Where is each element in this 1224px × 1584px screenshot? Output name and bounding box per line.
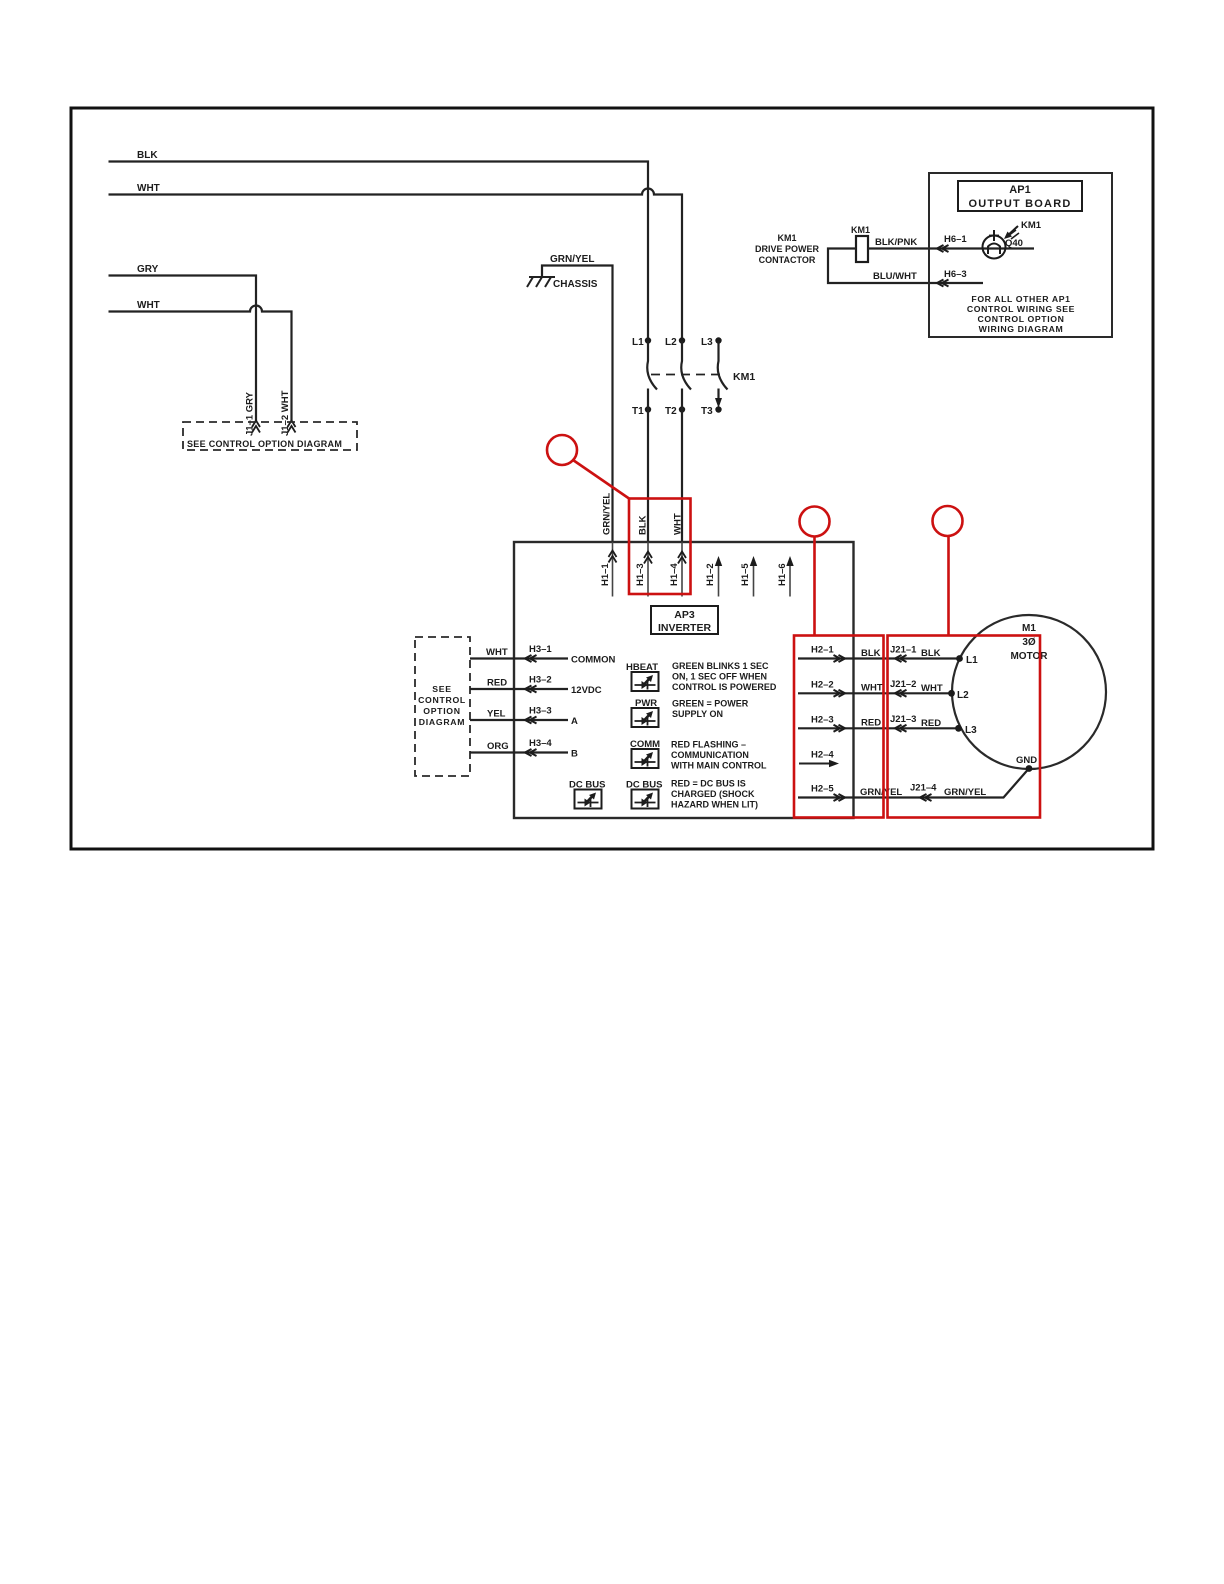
pin H1-1	[600, 542, 617, 597]
note HBEAT description	[672, 661, 777, 692]
svg-text:CHARGED (SHOCK: CHARGED (SHOCK	[671, 789, 755, 799]
svg-text:WHT: WHT	[921, 683, 943, 694]
svg-text:12VDC: 12VDC	[571, 685, 602, 696]
svg-text:H1–2: H1–2	[705, 563, 716, 586]
LED PWR	[632, 698, 659, 727]
svg-text:J21–3: J21–3	[890, 714, 916, 725]
svg-text:T3: T3	[701, 406, 713, 417]
wire GRY (turns down to J1-1)	[109, 264, 257, 421]
red callout line 1	[573, 460, 629, 499]
svg-text:L3: L3	[965, 725, 977, 736]
wire WHT T2 to inverter H1-4	[681, 410, 683, 543]
node L1 (motor)	[956, 655, 963, 662]
note COMM description	[671, 740, 767, 771]
wire H2-3 / J21-3 RED to motor L3	[798, 714, 956, 732]
svg-text:BLK: BLK	[137, 150, 158, 161]
red highlight box 1 (H1-3 / H1-4 pins)	[629, 499, 691, 595]
red callout circle 3	[933, 506, 963, 536]
svg-text:A: A	[571, 716, 578, 727]
node L3	[715, 337, 721, 343]
svg-text:J21–1: J21–1	[890, 645, 917, 656]
wire ORG to H3-4	[470, 738, 578, 760]
wire BLK T1 to inverter H1-3	[647, 410, 649, 543]
red callout line 2	[813, 537, 816, 636]
LED DC BUS (left)	[569, 780, 605, 809]
box AP3 inverter	[514, 542, 854, 818]
contact blade pole 3	[718, 341, 728, 390]
svg-text:KM1: KM1	[733, 371, 755, 383]
svg-text:WHT: WHT	[137, 300, 160, 311]
svg-text:WHT: WHT	[486, 647, 508, 658]
svg-text:H2–5: H2–5	[811, 784, 834, 795]
svg-text:CONTROL WIRING SEE: CONTROL WIRING SEE	[967, 304, 1075, 314]
contact blade pole 2	[681, 341, 691, 390]
motor M1	[952, 615, 1106, 769]
title box AP1 OUTPUT BOARD	[958, 181, 1082, 211]
connector J1-1 (mated pair)	[252, 421, 260, 433]
red callout circle 2	[800, 507, 830, 537]
svg-text:RED: RED	[861, 718, 881, 729]
svg-text:H6–1: H6–1	[944, 234, 967, 245]
svg-text:RED = DC BUS IS: RED = DC BUS IS	[671, 779, 746, 789]
wire H2-5 / J21-4 GRN/YEL to motor GND	[798, 770, 1028, 802]
wire BLK (top feed, turns down to L1)	[109, 150, 649, 338]
svg-text:ON, 1 SEC OFF WHEN: ON, 1 SEC OFF WHEN	[672, 672, 767, 682]
dashed box SEE CONTROL OPTION DIAGRAM (left of inverter)	[415, 637, 470, 776]
svg-text:GRY: GRY	[137, 264, 159, 275]
linkage dashed line	[651, 374, 724, 376]
svg-text:DRIVE POWER: DRIVE POWER	[755, 244, 820, 254]
red highlight box 2 (H2 connector column)	[794, 636, 884, 818]
svg-text:AP3: AP3	[674, 609, 695, 621]
svg-text:M1: M1	[1022, 623, 1036, 634]
node T3 (stub with down arrow)	[715, 406, 721, 412]
box AP1 output board	[929, 173, 1112, 337]
svg-text:WITH MAIN CONTROL: WITH MAIN CONTROL	[671, 761, 767, 771]
red highlight box 3 (J21 / motor leads)	[888, 636, 1041, 818]
LED HBEAT	[626, 662, 659, 691]
pin H1-5 (up arrow)	[740, 556, 757, 597]
svg-text:H3–3: H3–3	[529, 706, 552, 717]
svg-text:J21–2: J21–2	[890, 679, 916, 690]
label KM1 DRIVE POWER CONTACTOR	[755, 233, 820, 265]
svg-text:CONTROL OPTION: CONTROL OPTION	[978, 314, 1065, 324]
contact blade pole 1	[647, 341, 657, 390]
connector H6-1	[937, 245, 949, 252]
svg-text:T1: T1	[632, 406, 644, 417]
wire WHT to H3-1	[470, 644, 615, 666]
svg-text:H2–3: H2–3	[811, 715, 834, 726]
pin H1-3	[635, 542, 652, 597]
node L2	[679, 337, 685, 343]
border frame	[71, 108, 1153, 849]
svg-text:SEE: SEE	[432, 684, 451, 694]
connector J1-2 (mated pair)	[288, 421, 296, 433]
svg-text:CONTROL IS POWERED: CONTROL IS POWERED	[672, 682, 777, 692]
svg-text:ORG: ORG	[487, 741, 509, 752]
svg-text:BLK: BLK	[921, 648, 941, 659]
svg-text:B: B	[571, 749, 578, 760]
svg-text:AP1: AP1	[1009, 184, 1030, 196]
svg-text:Q40: Q40	[1005, 238, 1023, 249]
wire H2-2 / J21-2 WHT to motor L2	[798, 679, 949, 697]
svg-text:INVERTER: INVERTER	[658, 622, 712, 634]
pin H2-4 (right arrow stub)	[799, 750, 839, 768]
wire BLK/PNK coil to Q40	[868, 247, 1034, 249]
svg-text:H2–1: H2–1	[811, 645, 834, 656]
svg-text:MOTOR: MOTOR	[1010, 651, 1048, 662]
svg-text:H1–1: H1–1	[600, 563, 611, 586]
svg-text:H3–4: H3–4	[529, 738, 552, 749]
svg-text:H3–2: H3–2	[529, 675, 552, 686]
svg-text:L2: L2	[665, 337, 677, 348]
svg-text:J21–4: J21–4	[910, 783, 937, 794]
svg-text:RED: RED	[487, 678, 507, 689]
LED COMM	[630, 739, 660, 768]
svg-text:KM1: KM1	[1021, 220, 1042, 231]
svg-text:COMMON: COMMON	[571, 655, 615, 666]
wire WHT (lower, hops over GRY vertical, turns down to J1-2)	[109, 300, 292, 421]
svg-text:BLU/WHT: BLU/WHT	[873, 271, 917, 282]
pin H1-6 (up arrow)	[777, 556, 794, 597]
svg-text:WHT: WHT	[861, 683, 883, 694]
wire coil loop to BLU/WHT return	[828, 249, 983, 284]
svg-text:YEL: YEL	[487, 709, 506, 720]
wire H2-1 / J21-1 BLK to motor L1	[798, 645, 957, 663]
svg-text:WHT: WHT	[673, 513, 684, 535]
dashed box SEE CONTROL OPTION DIAGRAM (bottom of J1 wires)	[183, 422, 357, 450]
svg-text:HAZARD WHEN LIT): HAZARD WHEN LIT)	[671, 800, 758, 810]
red callout line 3	[947, 536, 950, 636]
svg-text:GRN/YEL: GRN/YEL	[860, 787, 902, 798]
wire YEL to H3-3	[470, 706, 578, 728]
note PWR description	[672, 699, 749, 720]
contactor KM1 main contacts	[632, 337, 755, 417]
svg-text:DIAGRAM: DIAGRAM	[419, 717, 465, 727]
svg-text:H2–2: H2–2	[811, 680, 834, 691]
red callout circle 1	[547, 435, 577, 465]
svg-text:H2–4: H2–4	[811, 750, 834, 761]
svg-text:H1–6: H1–6	[777, 563, 788, 586]
svg-text:BLK: BLK	[638, 515, 649, 535]
svg-text:CONTROL: CONTROL	[418, 695, 466, 705]
svg-text:L1: L1	[632, 337, 644, 348]
svg-text:BLK/PNK: BLK/PNK	[875, 237, 917, 248]
title box AP3 INVERTER	[651, 606, 718, 634]
gate pointer KM1 to Q40	[1004, 220, 1042, 239]
svg-text:WHT: WHT	[137, 183, 160, 194]
svg-text:H3–1: H3–1	[529, 644, 552, 655]
svg-text:RED FLASHING –: RED FLASHING –	[671, 740, 746, 750]
svg-text:BLK: BLK	[861, 648, 881, 659]
note DC BUS description	[671, 779, 758, 810]
node L2 (motor)	[948, 690, 955, 697]
svg-text:3Ø: 3Ø	[1022, 637, 1036, 648]
node GND (motor)	[1026, 765, 1033, 772]
LED DC BUS (right)	[626, 780, 662, 809]
node T2	[679, 406, 685, 412]
svg-text:L3: L3	[701, 337, 713, 348]
pin H1-4	[669, 542, 686, 597]
svg-text:GRN/YEL: GRN/YEL	[602, 493, 613, 535]
svg-text:GRN/YEL: GRN/YEL	[944, 787, 986, 798]
svg-text:H1–4: H1–4	[669, 563, 680, 586]
connector H6-3	[937, 280, 949, 287]
coil KM1	[851, 225, 870, 262]
pin H1-2 (up arrow)	[705, 556, 722, 597]
svg-text:L1: L1	[966, 655, 978, 666]
svg-text:FOR ALL OTHER AP1: FOR ALL OTHER AP1	[971, 294, 1070, 304]
note FOR ALL OTHER AP1 ...	[967, 294, 1075, 334]
svg-text:KM1: KM1	[851, 225, 870, 235]
svg-text:GND: GND	[1016, 755, 1037, 766]
svg-text:WIRING DIAGRAM: WIRING DIAGRAM	[979, 324, 1064, 334]
svg-text:OPTION: OPTION	[423, 706, 461, 716]
node L3 (motor)	[955, 725, 962, 732]
svg-text:COMMUNICATION: COMMUNICATION	[671, 750, 749, 760]
svg-text:GRN/YEL: GRN/YEL	[550, 254, 594, 265]
svg-text:GREEN BLINKS 1 SEC: GREEN BLINKS 1 SEC	[672, 661, 769, 671]
svg-text:GREEN = POWER: GREEN = POWER	[672, 699, 749, 709]
wire WHT (second feed, hops over BLK vertical, turns down to L2)	[109, 183, 683, 338]
svg-text:H1–3: H1–3	[635, 563, 646, 586]
svg-text:T2: T2	[665, 406, 677, 417]
wire RED to H3-2	[470, 675, 602, 697]
transistor Q40	[983, 230, 1023, 259]
svg-text:SUPPLY ON: SUPPLY ON	[672, 709, 723, 719]
chassis ground GRN/YEL	[527, 254, 613, 542]
node L1	[645, 337, 651, 343]
svg-text:SEE CONTROL OPTION DIAGRAM: SEE CONTROL OPTION DIAGRAM	[187, 439, 342, 449]
node T1	[645, 406, 651, 412]
svg-text:RED: RED	[921, 718, 941, 729]
svg-text:OUTPUT BOARD: OUTPUT BOARD	[968, 198, 1071, 210]
svg-text:H6–3: H6–3	[944, 269, 967, 280]
svg-text:KM1: KM1	[777, 233, 796, 243]
svg-text:H1–5: H1–5	[740, 563, 751, 586]
svg-text:L2: L2	[957, 690, 969, 701]
svg-text:CHASSIS: CHASSIS	[553, 279, 598, 290]
svg-text:CONTACTOR: CONTACTOR	[759, 255, 816, 265]
